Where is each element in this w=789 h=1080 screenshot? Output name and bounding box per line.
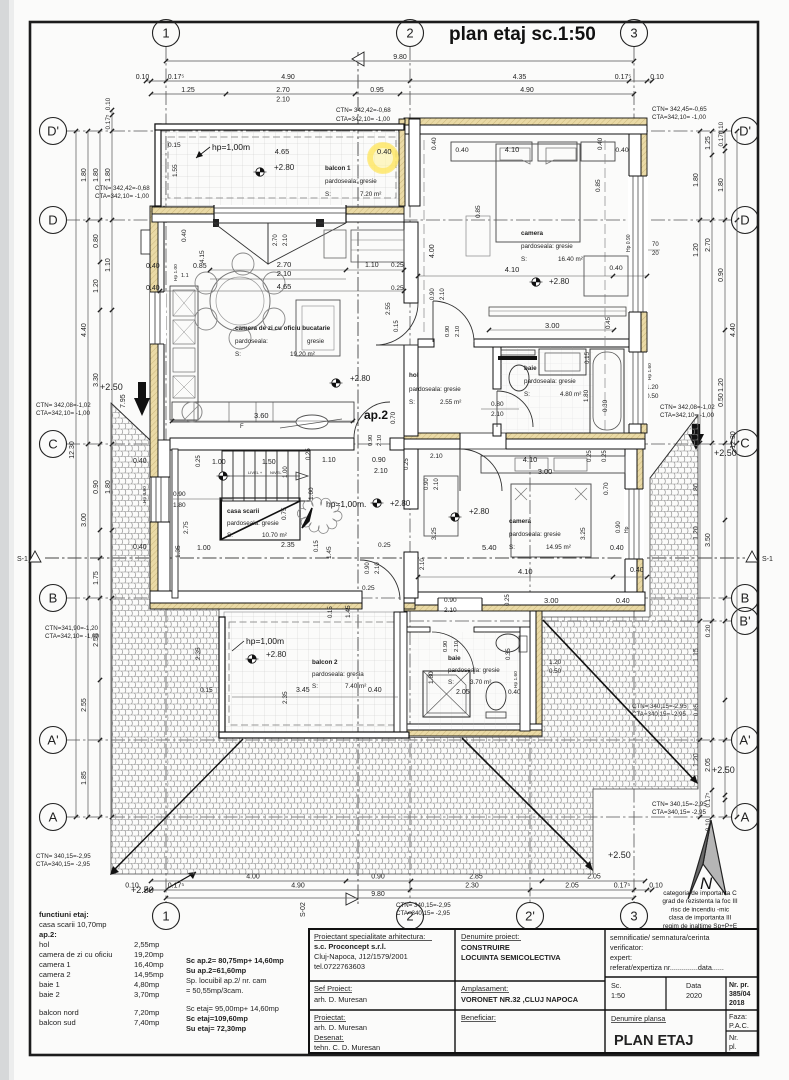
svg-text:1.80: 1.80 bbox=[583, 389, 590, 402]
kitchen appliances bbox=[173, 290, 195, 316]
svg-text:Nr. pr.: Nr. pr. bbox=[729, 982, 749, 989]
balcon 1 inner dashed rail bbox=[168, 137, 396, 198]
svg-text:0.15: 0.15 bbox=[328, 606, 334, 618]
svg-text:A': A' bbox=[739, 733, 750, 748]
svg-text:1.60: 1.60 bbox=[308, 487, 315, 500]
svg-text:0.10: 0.10 bbox=[718, 121, 725, 134]
svg-text:camera: camera bbox=[509, 518, 532, 525]
left dim chain col c bbox=[111, 110, 113, 817]
scanned page left edge bbox=[0, 0, 9, 1080]
baie2 west wall (double with balcony wall) bbox=[394, 612, 407, 736]
balcon 2 inner dashed rail bbox=[229, 622, 397, 725]
svg-text:3.00: 3.00 bbox=[544, 596, 559, 605]
svg-text:NIVEL: NIVEL bbox=[270, 470, 282, 475]
svg-text:CTN= 342,08=-1,02: CTN= 342,08=-1,02 bbox=[36, 402, 91, 409]
svg-text:1.00: 1.00 bbox=[283, 466, 289, 478]
svg-text:0.40: 0.40 bbox=[609, 265, 622, 272]
svg-text:4.80 m²: 4.80 m² bbox=[560, 391, 581, 398]
svg-text:0.40: 0.40 bbox=[181, 229, 188, 242]
baie2 east wall bbox=[536, 611, 542, 731]
baie2 floor tiles bbox=[407, 632, 520, 731]
kitchen counter along west wall bbox=[170, 286, 198, 420]
bottom dim chain row1 bbox=[151, 880, 645, 882]
svg-text:1.20: 1.20 bbox=[718, 378, 725, 392]
svg-text:0.17⁵: 0.17⁵ bbox=[614, 883, 631, 890]
svg-text:+2.50: +2.50 bbox=[714, 448, 737, 458]
svg-text:Hp 0.90: Hp 0.90 bbox=[626, 234, 632, 252]
roof hip line upper-left small bbox=[111, 403, 150, 440]
svg-text:pardoseala: gresie: pardoseala: gresie bbox=[448, 667, 500, 674]
svg-text:9.80: 9.80 bbox=[371, 891, 385, 898]
svg-text:1.25: 1.25 bbox=[181, 87, 195, 94]
svg-text:0.95: 0.95 bbox=[370, 87, 384, 94]
svg-text:19.20 m²: 19.20 m² bbox=[290, 351, 315, 358]
svg-text:4.15: 4.15 bbox=[199, 250, 206, 263]
svg-text:categoria de importanta C: categoria de importanta C bbox=[663, 890, 737, 897]
svg-text:2.05: 2.05 bbox=[705, 758, 712, 772]
kitchen lower counter bbox=[172, 402, 354, 422]
svg-text:1.20: 1.20 bbox=[93, 279, 100, 293]
right dim chain col c bbox=[724, 131, 726, 817]
svg-text:0.70: 0.70 bbox=[390, 411, 397, 424]
svg-text:CTA=342,10= -1,00: CTA=342,10= -1,00 bbox=[336, 116, 390, 123]
svg-text:D: D bbox=[740, 213, 749, 228]
svg-text:0.15: 0.15 bbox=[200, 687, 213, 694]
svg-text:0.90: 0.90 bbox=[173, 491, 186, 498]
svg-text:0.40: 0.40 bbox=[146, 263, 160, 270]
svg-text:0.85: 0.85 bbox=[193, 263, 207, 270]
door hall to bedroom1 bbox=[433, 301, 474, 342]
east wall lower tan bbox=[637, 449, 643, 598]
bedroom2 B-row dim bbox=[418, 576, 647, 578]
svg-text:baie: baie bbox=[524, 365, 537, 372]
svg-text:D: D bbox=[48, 213, 57, 228]
svg-text:0.40: 0.40 bbox=[455, 147, 468, 154]
svg-text:S:: S: bbox=[325, 191, 331, 198]
svg-text:hol: hol bbox=[409, 372, 419, 379]
north wall left part (under balcon1) bbox=[152, 207, 214, 214]
svg-text:D': D' bbox=[739, 124, 751, 139]
svg-text:20: 20 bbox=[652, 251, 659, 257]
svg-text:B: B bbox=[49, 591, 58, 606]
svg-text:casa scarii 10,70mp: casa scarii 10,70mp bbox=[39, 920, 107, 929]
svg-text:C: C bbox=[48, 437, 57, 452]
svg-text:Hp 1.00: Hp 1.00 bbox=[173, 264, 179, 281]
bedroom1 south wall bbox=[418, 339, 434, 347]
svg-text:CTA=340,15= -2,95: CTA=340,15= -2,95 bbox=[652, 809, 706, 816]
svg-text:baie: baie bbox=[448, 655, 461, 662]
svg-text:CTN= 340,15=-2,95: CTN= 340,15=-2,95 bbox=[652, 801, 707, 808]
svg-text:0.90: 0.90 bbox=[424, 478, 430, 490]
svg-text:CTN= 340,15=-2,95: CTN= 340,15=-2,95 bbox=[396, 902, 451, 909]
axis bubbles right bbox=[732, 118, 759, 145]
svg-text:0.20: 0.20 bbox=[705, 624, 712, 637]
svg-text:2.10: 2.10 bbox=[444, 607, 457, 614]
svg-text:+2.50: +2.50 bbox=[608, 850, 631, 860]
left dim chain col a bbox=[87, 131, 89, 817]
baie1 tub bbox=[590, 349, 624, 433]
svg-text:balcon 2: balcon 2 bbox=[312, 659, 338, 666]
west wall (tan strip) bbox=[150, 206, 158, 609]
svg-text:14.95 m²: 14.95 m² bbox=[546, 544, 571, 551]
svg-text:4.00: 4.00 bbox=[429, 244, 436, 258]
svg-text:verificator:: verificator: bbox=[610, 943, 643, 952]
B row wall right part bbox=[404, 605, 645, 611]
svg-text:0.40: 0.40 bbox=[508, 689, 521, 696]
svg-text:3.70 m²: 3.70 m² bbox=[470, 679, 491, 686]
svg-text:S:: S: bbox=[409, 399, 415, 406]
bottom dim chain row3 9.80 bbox=[166, 897, 634, 899]
svg-text:S:: S: bbox=[235, 351, 241, 358]
svg-text:0.10: 0.10 bbox=[650, 74, 664, 81]
svg-text:C: C bbox=[740, 436, 749, 451]
svg-text:s.c. Proconcept s.r.l.: s.c. Proconcept s.r.l. bbox=[314, 942, 386, 951]
svg-text:arh. D. Muresan: arh. D. Muresan bbox=[314, 995, 367, 1004]
svg-text:2.55 m²: 2.55 m² bbox=[440, 399, 461, 406]
axis bubbles top bbox=[153, 20, 180, 47]
svg-text:1.80: 1.80 bbox=[428, 671, 435, 684]
svg-text:F: F bbox=[240, 424, 244, 430]
svg-text:tehn. C. D. Muresan: tehn. C. D. Muresan bbox=[314, 1043, 380, 1052]
door hall to baie1 bbox=[497, 391, 533, 427]
svg-text:2.35: 2.35 bbox=[281, 542, 295, 549]
baie2 door arc bbox=[432, 632, 474, 674]
svg-text:0.17⁵: 0.17⁵ bbox=[615, 74, 632, 81]
svg-text:4.90: 4.90 bbox=[520, 87, 534, 94]
svg-text:4.10: 4.10 bbox=[505, 145, 520, 154]
svg-text:pardoseala: gresia: pardoseala: gresia bbox=[312, 671, 364, 678]
svg-text:0.40: 0.40 bbox=[133, 544, 147, 551]
svg-text:2.10: 2.10 bbox=[455, 326, 461, 337]
svg-text:1.75: 1.75 bbox=[93, 571, 100, 585]
svg-text:0.25: 0.25 bbox=[505, 594, 511, 606]
svg-text:S-1: S-1 bbox=[17, 556, 28, 563]
baie1 floor tiles bbox=[501, 347, 593, 433]
svg-text:hp=1,00m: hp=1,00m bbox=[212, 142, 250, 152]
svg-text:S-1: S-1 bbox=[762, 556, 773, 563]
svg-text:S:: S: bbox=[509, 544, 515, 551]
svg-text:0.10: 0.10 bbox=[136, 74, 150, 81]
svg-text:0.25: 0.25 bbox=[587, 450, 593, 462]
svg-text:tel.0722763603: tel.0722763603 bbox=[314, 962, 365, 971]
svg-text:Denumire plansa: Denumire plansa bbox=[611, 1014, 665, 1023]
svg-text:4.35: 4.35 bbox=[513, 74, 527, 81]
french door swing triangles bbox=[214, 223, 268, 264]
svg-text:0.40: 0.40 bbox=[146, 285, 160, 292]
svg-text:expert:: expert: bbox=[610, 953, 632, 962]
svg-text:4.00: 4.00 bbox=[246, 874, 260, 881]
svg-text:2.70: 2.70 bbox=[273, 234, 279, 246]
svg-text:1.50: 1.50 bbox=[262, 459, 276, 466]
svg-text:2.10: 2.10 bbox=[283, 234, 289, 246]
svg-text:0.25: 0.25 bbox=[391, 262, 404, 269]
west wall window lower bbox=[150, 477, 170, 522]
svg-text:0.90: 0.90 bbox=[93, 480, 100, 494]
svg-text:0.40: 0.40 bbox=[615, 147, 628, 154]
svg-text:0.75: 0.75 bbox=[281, 507, 288, 520]
svg-text:+2.80: +2.80 bbox=[350, 374, 371, 383]
revision cloud bbox=[297, 498, 342, 534]
north arrow bbox=[688, 820, 726, 899]
svg-text:1.25: 1.25 bbox=[705, 136, 712, 150]
svg-text:0.90: 0.90 bbox=[430, 288, 436, 300]
svg-text:7.95: 7.95 bbox=[120, 394, 127, 408]
svg-text:gresie: gresie bbox=[307, 338, 325, 345]
svg-text:Sc etaj= 95,00mp+ 14,60mp: Sc etaj= 95,00mp+ 14,60mp bbox=[186, 1004, 279, 1013]
bedroom1 dashed projection lines bbox=[423, 140, 425, 336]
svg-text:2: 2 bbox=[406, 26, 413, 41]
svg-text:0.90: 0.90 bbox=[368, 435, 374, 446]
svg-text:0.30: 0.30 bbox=[602, 399, 609, 412]
door stairs area to balcon2 bbox=[360, 560, 400, 600]
svg-text:+2.80: +2.80 bbox=[469, 507, 490, 516]
roof hip line bottom-right with arrow bbox=[462, 738, 591, 867]
svg-text:4.10: 4.10 bbox=[505, 265, 520, 274]
svg-text:Cluj-Napoca, J12/1579/2001: Cluj-Napoca, J12/1579/2001 bbox=[314, 952, 408, 961]
svg-text:A': A' bbox=[47, 733, 58, 748]
svg-text:A: A bbox=[741, 810, 750, 825]
svg-text:0.85: 0.85 bbox=[595, 179, 602, 192]
svg-text:LOCUINTA SEMICOLECTIVA: LOCUINTA SEMICOLECTIVA bbox=[461, 953, 561, 962]
door gap B wall to balcon2 bbox=[361, 591, 363, 609]
svg-text:0.25: 0.25 bbox=[362, 585, 375, 592]
baie1 counter bbox=[539, 349, 586, 375]
svg-text:S:: S: bbox=[227, 532, 233, 539]
north wall bedroom1 (top right) bbox=[404, 118, 647, 125]
window east upper 1 bbox=[628, 176, 648, 312]
svg-text:3.50: 3.50 bbox=[705, 533, 712, 547]
balcon 2 floor bbox=[224, 612, 406, 733]
svg-text:2.10: 2.10 bbox=[276, 97, 290, 104]
svg-text:2': 2' bbox=[525, 909, 535, 924]
svg-text:Sp. locuibil ap.2/ nr. cam: Sp. locuibil ap.2/ nr. cam bbox=[186, 976, 267, 985]
svg-text:2.55: 2.55 bbox=[385, 302, 392, 315]
svg-text:CTN= 342,42=-0,68: CTN= 342,42=-0,68 bbox=[95, 185, 150, 192]
dining table bbox=[210, 271, 270, 331]
bottom dim chain row2 bbox=[146, 889, 652, 891]
svg-text:7,40mp: 7,40mp bbox=[134, 1018, 159, 1027]
title block rows left bbox=[309, 980, 605, 982]
svg-text:pardoseala:: pardoseala: bbox=[235, 338, 268, 345]
B wall door gap to baie2 bbox=[438, 597, 482, 612]
svg-text:2.10: 2.10 bbox=[377, 435, 383, 446]
svg-text:0.25: 0.25 bbox=[602, 450, 608, 462]
svg-text:1:50: 1:50 bbox=[611, 991, 625, 1000]
sofa right of living bbox=[296, 300, 340, 356]
svg-text:1.10: 1.10 bbox=[365, 262, 379, 269]
svg-text:2.75: 2.75 bbox=[183, 521, 190, 534]
svg-text:2020: 2020 bbox=[686, 991, 702, 1000]
svg-text:2.70: 2.70 bbox=[276, 87, 290, 94]
section line S-1 bbox=[45, 557, 745, 559]
svg-text:0.80: 0.80 bbox=[93, 234, 100, 248]
svg-text:0.15: 0.15 bbox=[168, 142, 181, 149]
svg-text:Su ap.2=61,60mp: Su ap.2=61,60mp bbox=[186, 966, 247, 975]
svg-text:B: B bbox=[741, 591, 750, 606]
svg-text:1.80: 1.80 bbox=[105, 168, 112, 182]
svg-text:Desenat:: Desenat: bbox=[314, 1033, 344, 1042]
svg-text:2.55: 2.55 bbox=[81, 698, 88, 712]
svg-text:Faza:: Faza: bbox=[729, 1012, 747, 1021]
spine wall middle bbox=[404, 222, 418, 303]
svg-text:0.25: 0.25 bbox=[391, 285, 404, 292]
roof hip line right with arrow bbox=[543, 620, 696, 782]
svg-text:2.85: 2.85 bbox=[469, 874, 483, 881]
svg-text:1.85: 1.85 bbox=[81, 771, 88, 785]
stair landing box bbox=[220, 498, 300, 540]
svg-text:0.40: 0.40 bbox=[133, 458, 147, 465]
svg-text:CTA=340,15= -2,95: CTA=340,15= -2,95 bbox=[396, 910, 450, 917]
baie2 shower bbox=[423, 671, 470, 717]
svg-text:2.10: 2.10 bbox=[434, 478, 440, 490]
svg-text:arh. D. Muresan: arh. D. Muresan bbox=[314, 1023, 367, 1032]
west facade vent bump bbox=[141, 230, 150, 254]
svg-text:0.40: 0.40 bbox=[377, 147, 392, 156]
svg-text:+2.80: +2.80 bbox=[266, 650, 287, 659]
svg-text:+2.80: +2.80 bbox=[274, 163, 295, 172]
svg-text:S:: S: bbox=[448, 679, 454, 686]
svg-text:7,20mp: 7,20mp bbox=[134, 1008, 159, 1017]
svg-text:7.20 m²: 7.20 m² bbox=[360, 191, 381, 198]
svg-text:2.10: 2.10 bbox=[277, 269, 292, 278]
svg-text:ap.2: ap.2 bbox=[364, 408, 388, 422]
roof hatch field (left band + bottom + right band) bbox=[111, 403, 698, 874]
svg-text:3.25: 3.25 bbox=[431, 527, 438, 540]
svg-text:semnificatie/ semnatura/cerint: semnificatie/ semnatura/cerinta bbox=[610, 933, 709, 942]
svg-text:+2.50: +2.50 bbox=[100, 382, 123, 392]
C wall door gap to camera2 bbox=[460, 432, 506, 450]
svg-text:10.70 m²: 10.70 m² bbox=[262, 532, 287, 539]
stair west wall bbox=[172, 449, 178, 598]
svg-text:CTA=342,10= -1,00: CTA=342,10= -1,00 bbox=[660, 412, 714, 419]
svg-text:4.90: 4.90 bbox=[291, 883, 305, 890]
svg-text:0.90: 0.90 bbox=[718, 268, 725, 282]
svg-text:3,70mp: 3,70mp bbox=[134, 990, 159, 999]
svg-text:casa scarii: casa scarii bbox=[227, 508, 259, 515]
svg-text:1.80: 1.80 bbox=[718, 178, 725, 192]
svg-text:2.10: 2.10 bbox=[420, 558, 426, 570]
baie1 wc bbox=[509, 365, 529, 391]
svg-text:0.85: 0.85 bbox=[475, 205, 482, 218]
svg-text:2.35: 2.35 bbox=[282, 691, 289, 704]
svg-text:CTA=342,10= -1,00: CTA=342,10= -1,00 bbox=[652, 114, 706, 121]
svg-text:CTN= 342,08=-1,02: CTN= 342,08=-1,02 bbox=[660, 404, 715, 411]
svg-text:0.90: 0.90 bbox=[372, 457, 386, 464]
svg-text:1.10: 1.10 bbox=[105, 258, 112, 272]
baie2 east inner wall line bbox=[520, 627, 530, 731]
svg-text:3.00: 3.00 bbox=[545, 321, 560, 330]
door hall to bedroom2 bbox=[460, 449, 502, 491]
svg-text:1.20: 1.20 bbox=[549, 659, 562, 666]
svg-text:P.A.C.: P.A.C. bbox=[729, 1021, 749, 1030]
svg-text:+2.80: +2.80 bbox=[549, 277, 570, 286]
svg-text:1: 1 bbox=[162, 26, 169, 41]
svg-text:pardoseala: gresie: pardoseala: gresie bbox=[227, 520, 279, 527]
baie2 sink bbox=[496, 634, 520, 652]
svg-text:0.35: 0.35 bbox=[506, 648, 512, 660]
balcony door opening (glazed band) bbox=[214, 205, 346, 223]
axis bubbles left bbox=[40, 118, 67, 145]
svg-text:0.15: 0.15 bbox=[394, 320, 400, 332]
svg-text:4,80mp: 4,80mp bbox=[134, 980, 159, 989]
svg-text:0.25: 0.25 bbox=[404, 458, 410, 470]
svg-text:2.10: 2.10 bbox=[430, 453, 443, 460]
svg-text:pardoseala: gresie: pardoseala: gresie bbox=[521, 243, 573, 250]
svg-text:0.80: 0.80 bbox=[491, 401, 504, 408]
svg-text:Amplasament:: Amplasament: bbox=[461, 984, 508, 993]
svg-text:70: 70 bbox=[652, 242, 659, 248]
svg-text:2.05: 2.05 bbox=[456, 689, 470, 696]
svg-text:CTA=342,10= -1,00: CTA=342,10= -1,00 bbox=[45, 633, 99, 640]
axis 2prime dashed line bbox=[529, 455, 531, 903]
svg-text:0.50: 0.50 bbox=[549, 668, 562, 675]
svg-text:2.05: 2.05 bbox=[565, 883, 579, 890]
svg-text:Hp 0.90: Hp 0.90 bbox=[142, 486, 148, 503]
svg-text:VORONET NR.32 ,CLUJ NAPOCA: VORONET NR.32 ,CLUJ NAPOCA bbox=[461, 995, 579, 1004]
svg-text:baie 1: baie 1 bbox=[39, 980, 60, 989]
svg-text:hp=1,00m: hp=1,00m bbox=[246, 636, 284, 646]
svg-text:LIVEL +: LIVEL + bbox=[248, 470, 263, 475]
svg-text:3.60: 3.60 bbox=[254, 411, 269, 420]
svg-text:+2.50: +2.50 bbox=[131, 885, 154, 895]
right dim chain col a (innermost) bbox=[699, 131, 701, 817]
top dim chain row2 bbox=[146, 80, 652, 82]
svg-text:0.90: 0.90 bbox=[365, 562, 371, 574]
east wall upper tan bbox=[641, 134, 647, 433]
svg-text:Data: Data bbox=[686, 981, 701, 990]
svg-text:0.25: 0.25 bbox=[196, 455, 202, 467]
svg-text:0.17⁵: 0.17⁵ bbox=[168, 74, 185, 81]
svg-text:4.40: 4.40 bbox=[81, 323, 88, 337]
axis2 spine wall top (tan) bbox=[399, 119, 405, 206]
svg-text:1.80: 1.80 bbox=[93, 168, 100, 182]
svg-text:2.35: 2.35 bbox=[195, 647, 202, 660]
svg-text:3: 3 bbox=[630, 909, 637, 924]
svg-text:CTN=341,90=-1,20: CTN=341,90=-1,20 bbox=[45, 625, 99, 632]
svg-text:2.70: 2.70 bbox=[277, 260, 292, 269]
svg-text:4.65: 4.65 bbox=[277, 282, 292, 291]
svg-text:3: 3 bbox=[630, 26, 637, 41]
svg-text:ap.2:: ap.2: bbox=[39, 930, 57, 939]
right dim chain col b bbox=[711, 131, 713, 817]
svg-text:+2.50: +2.50 bbox=[712, 765, 735, 775]
svg-text:9.80: 9.80 bbox=[393, 54, 407, 61]
svg-text:camera 2: camera 2 bbox=[39, 970, 71, 979]
svg-text:pl.: pl. bbox=[729, 1042, 737, 1051]
svg-text:2.10: 2.10 bbox=[440, 288, 446, 300]
B row wall left part bbox=[150, 603, 362, 609]
svg-text:0.90: 0.90 bbox=[443, 641, 449, 652]
svg-text:1: 1 bbox=[162, 909, 169, 924]
svg-text:1.00: 1.00 bbox=[197, 545, 211, 552]
svg-text:2.10: 2.10 bbox=[374, 468, 388, 475]
shelf against spine wall top bbox=[351, 230, 404, 262]
svg-text:balcon nord: balcon nord bbox=[39, 1008, 79, 1017]
stair treads bbox=[221, 451, 223, 501]
chairs bbox=[232, 253, 254, 275]
svg-text:0.50: 0.50 bbox=[718, 393, 725, 407]
svg-text:hol: hol bbox=[39, 940, 49, 949]
dim 3.60 bbox=[172, 420, 353, 422]
svg-text:0.15: 0.15 bbox=[314, 540, 320, 552]
svg-text:0.10: 0.10 bbox=[649, 883, 663, 890]
svg-text:D': D' bbox=[47, 124, 59, 139]
left dim col overall 12.30 bbox=[75, 131, 77, 817]
door living to hall bbox=[376, 303, 418, 345]
svg-text:0.70: 0.70 bbox=[603, 482, 610, 495]
baie1 west wall bbox=[493, 347, 501, 389]
svg-text:1.80: 1.80 bbox=[81, 168, 88, 182]
